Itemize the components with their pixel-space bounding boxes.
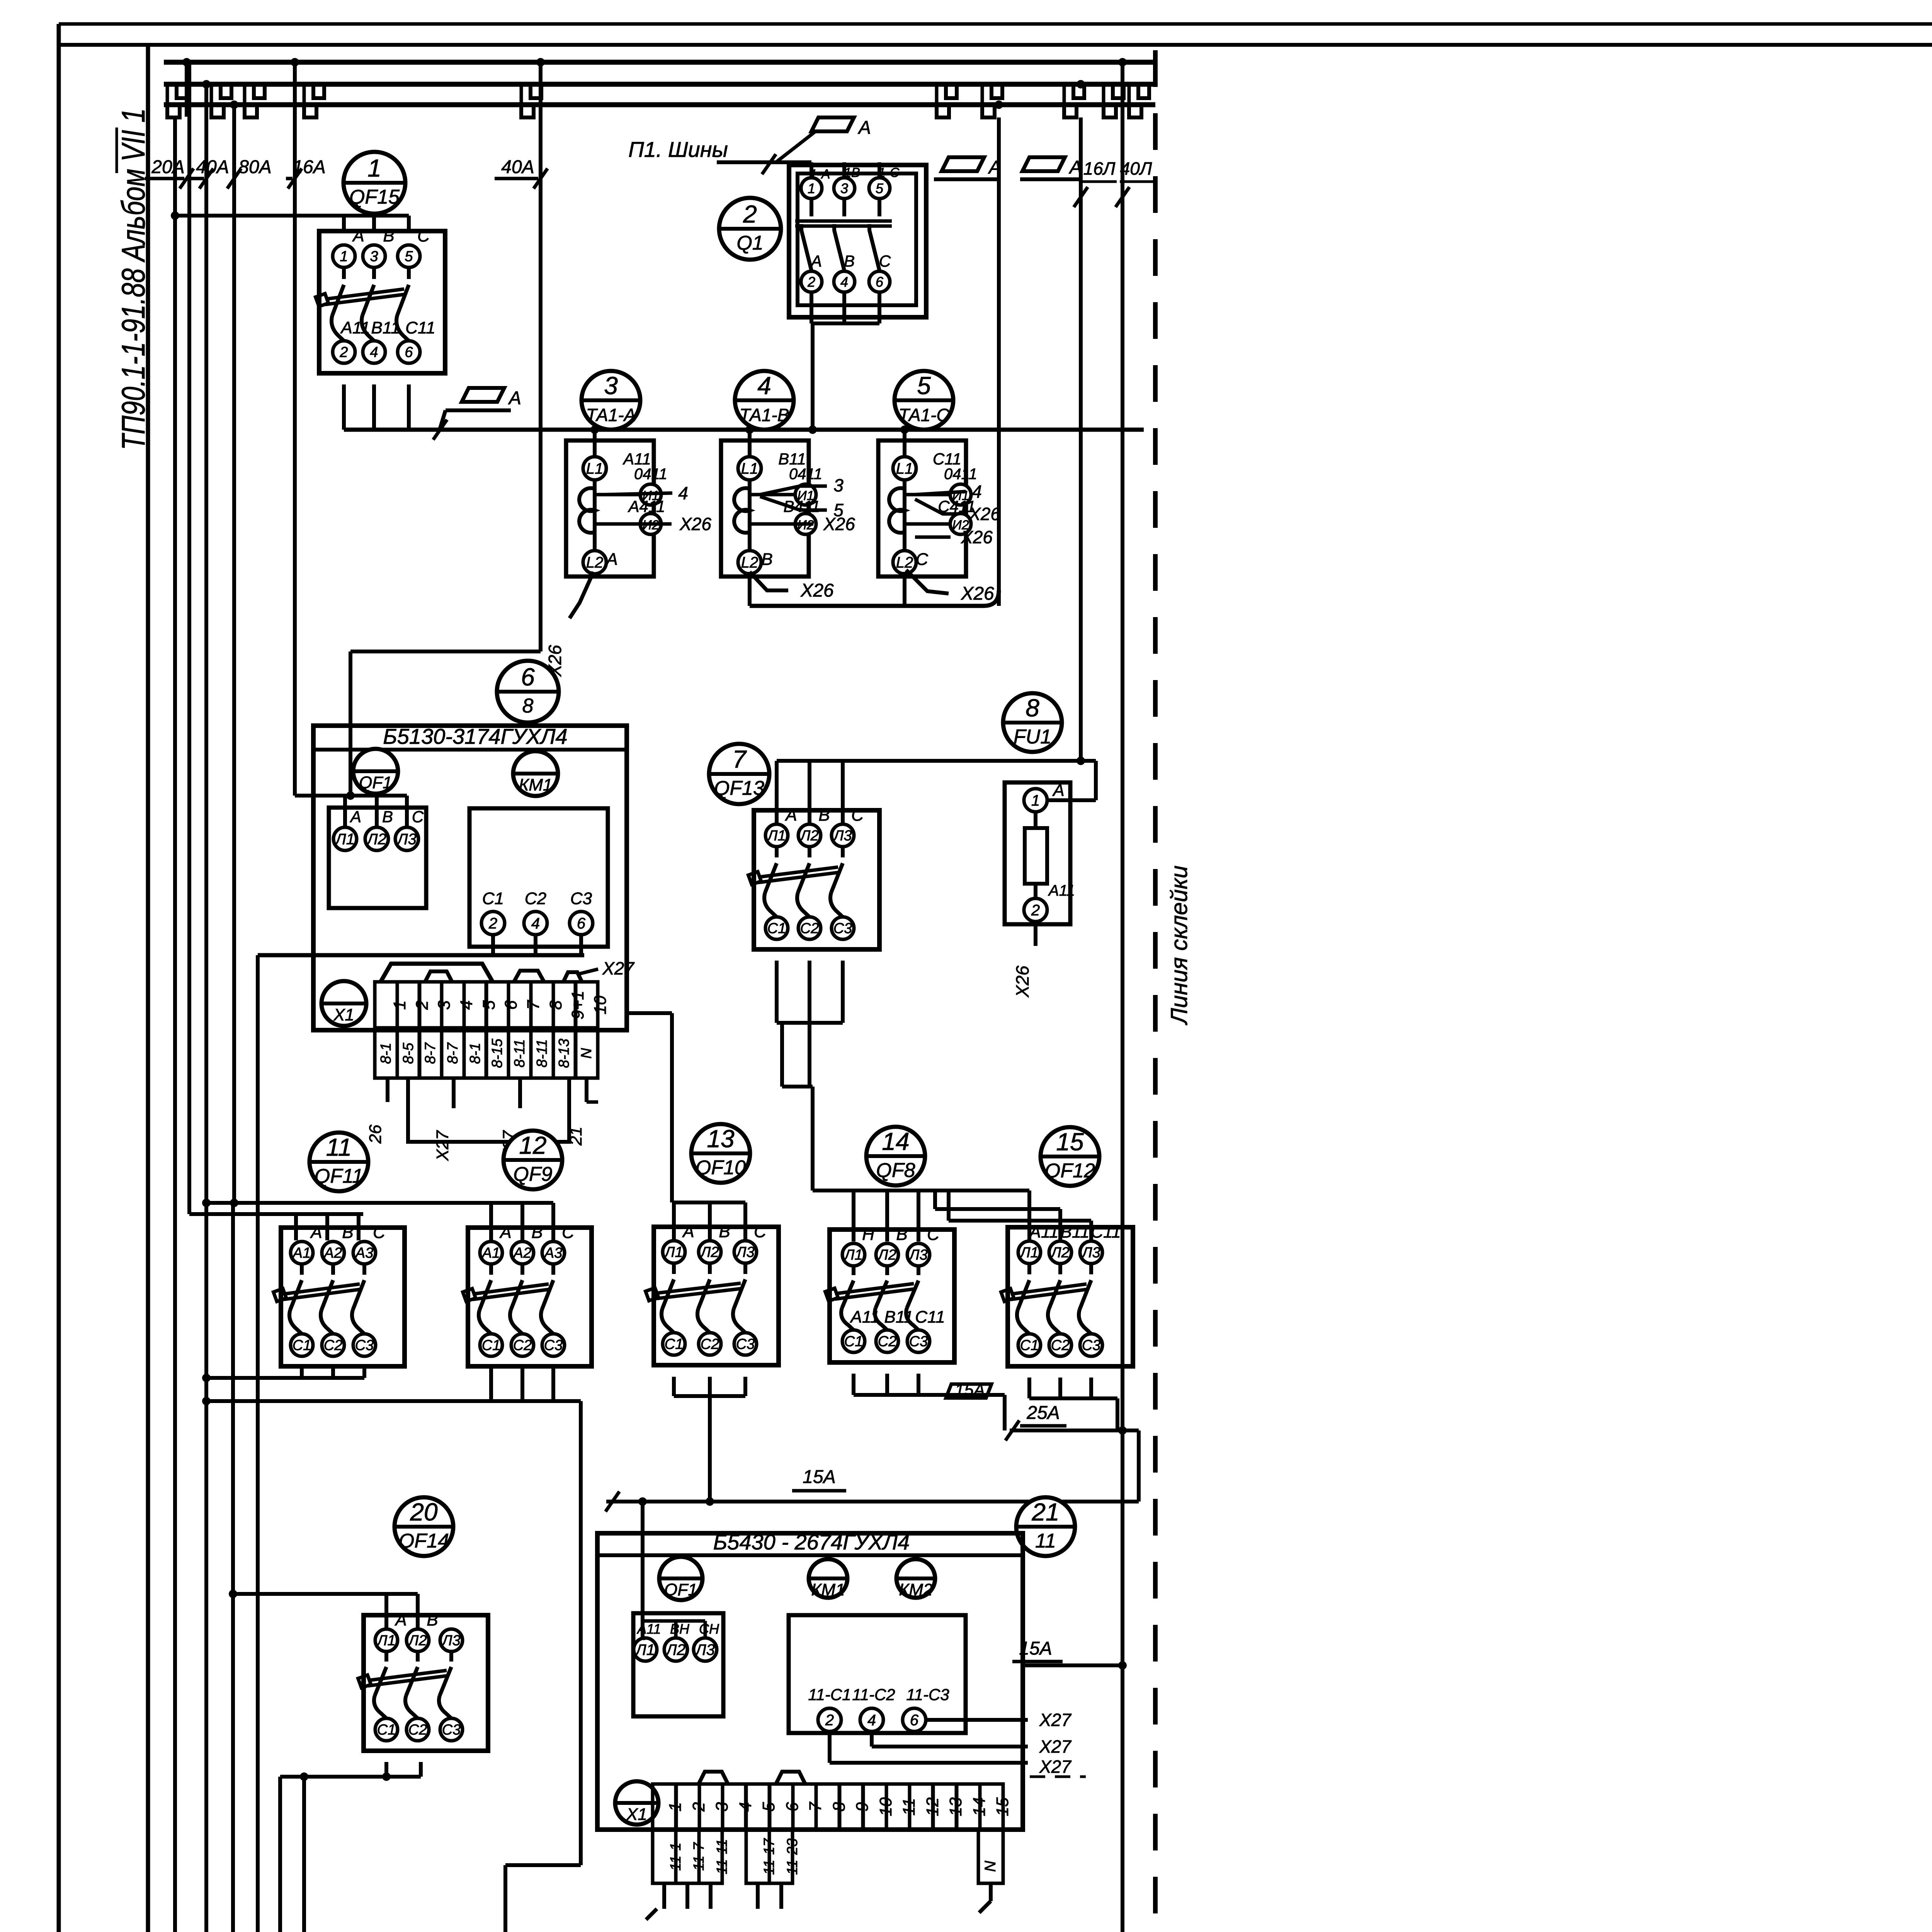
svg-text:А411: А411 bbox=[628, 497, 665, 515]
QF9 output rail bbox=[206, 1399, 581, 1403]
svg-text:С11: С11 bbox=[1091, 1223, 1121, 1242]
svg-text:С3: С3 bbox=[736, 1336, 755, 1352]
svg-text:5: 5 bbox=[917, 372, 931, 400]
bus junction bbox=[995, 100, 1003, 109]
svg-text:С1: С1 bbox=[665, 1336, 684, 1352]
TA1-А terminal L2 bbox=[583, 551, 606, 574]
svg-text:Л2: Л2 bbox=[407, 1633, 427, 1649]
svg-text:8-11: 8-11 bbox=[534, 1039, 550, 1067]
clamp drop wire bbox=[166, 84, 169, 105]
svg-text:Л2: Л2 bbox=[877, 1247, 896, 1263]
bus flag A right 1 bbox=[942, 157, 1001, 178]
15A flag bbox=[946, 1381, 992, 1400]
svg-text:2: 2 bbox=[807, 274, 815, 290]
svg-text:С3: С3 bbox=[909, 1333, 928, 1350]
cable stub X28 bbox=[779, 1883, 783, 1909]
TA1-B sec wire X26 bbox=[760, 522, 813, 526]
svg-text:ТА1-А: ТА1-А bbox=[586, 405, 636, 425]
svg-text:1В: 1В bbox=[844, 165, 860, 180]
svg-text:1: 1 bbox=[808, 180, 815, 196]
KM1 output wire bbox=[579, 935, 583, 955]
svg-text:Х26: Х26 bbox=[1012, 966, 1032, 998]
svg-text:Л2: Л2 bbox=[665, 1641, 685, 1658]
wire down to 15A line bbox=[1137, 1430, 1141, 1502]
designator circle 6/8 bbox=[497, 661, 559, 723]
feeder wire X26 return bbox=[997, 117, 1001, 606]
svg-text:КМ2: КМ2 bbox=[899, 1580, 932, 1599]
QF10 output link bbox=[674, 1394, 745, 1398]
feeder tick bbox=[180, 168, 194, 189]
svg-text:С3: С3 bbox=[833, 920, 852, 937]
clamp 16A upper bbox=[313, 85, 324, 98]
TA1-C sec wire X26 lower bbox=[915, 536, 951, 539]
TA1-B L2 down wire bbox=[748, 572, 752, 606]
KM2 circle in B5430 bbox=[896, 1559, 935, 1599]
svg-text:4: 4 bbox=[370, 344, 378, 361]
feeder 20A top bbox=[185, 62, 189, 117]
svg-text:4: 4 bbox=[678, 483, 688, 503]
TA1-С primary wire bbox=[903, 429, 906, 560]
sheet border left bbox=[57, 24, 61, 1932]
Q1 down wire to TA line bbox=[811, 323, 815, 430]
svg-text:С2: С2 bbox=[878, 1333, 897, 1350]
svg-text:В: В bbox=[761, 550, 772, 569]
TA1-B input drop bbox=[748, 430, 752, 440]
TA1-С terminal I1 bbox=[950, 484, 971, 505]
svg-text:В: В bbox=[531, 1223, 543, 1242]
svg-text:11: 11 bbox=[1035, 1530, 1056, 1552]
bus P1 phase A bbox=[164, 60, 1156, 65]
designator circle 15/QF12 bbox=[1041, 1127, 1099, 1186]
svg-text:Х26: Х26 bbox=[961, 527, 993, 547]
svg-text:А11: А11 bbox=[1048, 882, 1075, 899]
svg-text:L1: L1 bbox=[741, 460, 759, 477]
svg-text:А: А bbox=[1068, 157, 1082, 178]
svg-text:А11: А11 bbox=[622, 450, 651, 468]
svg-text:А2: А2 bbox=[513, 1245, 531, 1261]
big U link under X1 bbox=[408, 1078, 569, 1142]
svg-text:Л1: Л1 bbox=[634, 1641, 655, 1658]
junction bbox=[706, 1497, 714, 1506]
svg-text:С1: С1 bbox=[844, 1333, 863, 1350]
svg-text:21: 21 bbox=[1031, 1498, 1059, 1526]
TA1-B sec wire 5 bbox=[760, 497, 827, 510]
P1 arrow tick bbox=[762, 154, 776, 174]
svg-text:Б5130-3174ГУХЛ4: Б5130-3174ГУХЛ4 bbox=[383, 724, 567, 748]
designator circle 13/QF10 bbox=[691, 1124, 750, 1183]
svg-text:2: 2 bbox=[825, 1712, 834, 1729]
svg-text:11-11: 11-11 bbox=[714, 1839, 730, 1874]
svg-text:ВН: ВН bbox=[670, 1621, 690, 1637]
svg-text:Линия склейки: Линия склейки bbox=[1166, 866, 1192, 1026]
QF15 output wire bbox=[342, 384, 346, 430]
current transformer TA1-С box bbox=[878, 440, 966, 577]
TA1-C L2 tail bbox=[906, 570, 949, 594]
bus P1 phase B bbox=[164, 82, 1156, 87]
svg-text:6: 6 bbox=[876, 274, 884, 290]
svg-text:А: А bbox=[349, 808, 361, 826]
bus flag A lower-left bbox=[462, 388, 521, 408]
Q1 feed line bbox=[742, 160, 811, 164]
svg-text:4: 4 bbox=[457, 1000, 476, 1010]
drop cells under 5-6 bbox=[746, 1830, 801, 1883]
QF9 feed drop bbox=[551, 1203, 555, 1240]
fuse wire top bbox=[1034, 812, 1037, 828]
svg-text:В: В bbox=[719, 1222, 730, 1241]
clamp right 3 bbox=[1064, 104, 1077, 117]
QF9 output wire bbox=[520, 1366, 524, 1401]
X1 cell4 wire bbox=[452, 1078, 456, 1108]
svg-text:КМ1: КМ1 bbox=[519, 776, 552, 794]
stub 28 bend bbox=[646, 1909, 657, 1920]
QF8 output wire bbox=[852, 1374, 855, 1395]
QF1 terminal Л1 bbox=[333, 827, 357, 850]
svg-text:5: 5 bbox=[480, 1000, 498, 1010]
clamp right 2 upper bbox=[992, 85, 1002, 98]
15A underline bbox=[792, 1489, 846, 1493]
svg-text:15: 15 bbox=[993, 1797, 1012, 1816]
svg-text:3: 3 bbox=[833, 475, 844, 495]
svg-text:40А: 40А bbox=[196, 157, 229, 177]
svg-text:QF13: QF13 bbox=[714, 777, 764, 799]
designator circle 7/QF13 bbox=[709, 744, 769, 804]
svg-text:7: 7 bbox=[524, 1000, 543, 1010]
svg-text:1: 1 bbox=[340, 248, 348, 265]
svg-text:А: А bbox=[508, 388, 521, 408]
svg-text:С1: С1 bbox=[482, 889, 504, 908]
feeder tick bbox=[199, 168, 213, 189]
FU1 riser bbox=[1094, 761, 1098, 800]
15A wire to 40L feeder bbox=[1023, 1663, 1122, 1667]
clamp 40A mid bbox=[521, 104, 534, 117]
svg-text:В11: В11 bbox=[884, 1308, 913, 1327]
svg-text:А3: А3 bbox=[355, 1245, 373, 1261]
QF10 wire down to 15A line bbox=[708, 1396, 712, 1502]
svg-text:А2: А2 bbox=[323, 1245, 342, 1261]
clamp drop wire bbox=[1128, 84, 1131, 105]
junction bbox=[1118, 1661, 1127, 1670]
svg-text:Л3: Л3 bbox=[832, 828, 852, 844]
svg-text:11-С3: 11-С3 bbox=[906, 1685, 949, 1704]
clamp drop wire bbox=[1102, 84, 1105, 105]
svg-text:Л2: Л2 bbox=[699, 1244, 719, 1260]
svg-text:26: 26 bbox=[366, 1124, 385, 1144]
svg-text:С3: С3 bbox=[544, 1337, 563, 1354]
junction bbox=[230, 1199, 238, 1207]
clamp 16A bbox=[304, 104, 316, 117]
feeder 40A wire bbox=[204, 84, 208, 1932]
junction bbox=[300, 1772, 308, 1781]
QF12 tap 3 bbox=[947, 1190, 951, 1221]
flag underline wire 1 bbox=[934, 177, 999, 181]
QF9 output wire bbox=[489, 1366, 493, 1401]
QF15 feed line bbox=[175, 214, 409, 218]
QF10 feed drop bbox=[708, 1202, 712, 1242]
svg-text:Х27: Х27 bbox=[1039, 1736, 1071, 1757]
svg-text:Л3: Л3 bbox=[441, 1633, 460, 1649]
TA1-В terminal I2 bbox=[795, 514, 816, 534]
bus junction bbox=[202, 80, 211, 88]
glue line (liniya skleyki) bbox=[1153, 50, 1158, 1932]
svg-text:С: С bbox=[851, 806, 864, 825]
junction feed 16L bbox=[1077, 757, 1085, 765]
clamp drop wire bbox=[243, 84, 247, 105]
TA1-А winding bbox=[579, 488, 595, 532]
svg-text:QF1: QF1 bbox=[359, 773, 392, 792]
Q1 output wire bbox=[842, 292, 846, 323]
svg-text:Л1: Л1 bbox=[663, 1244, 683, 1260]
40A step wire bbox=[350, 650, 541, 653]
feeder from KM1 rail down bbox=[256, 955, 260, 1932]
underline of VII bbox=[116, 128, 118, 173]
QF1 drop wire bbox=[405, 796, 409, 827]
wire down to QF8 feed bbox=[811, 1087, 815, 1190]
Q1 feed drop bbox=[810, 162, 813, 178]
KM1 terminal 4 bbox=[524, 912, 547, 935]
wire 2 to X27 bbox=[830, 1761, 1028, 1765]
TA1-А I1 link bbox=[595, 493, 640, 497]
designator circle 2/Q1 bbox=[719, 198, 781, 260]
junction TA1-C bbox=[900, 425, 909, 434]
svg-text:4: 4 bbox=[867, 1712, 876, 1729]
clamp drop wire bbox=[303, 84, 306, 105]
QF15 feed drop bbox=[342, 216, 346, 231]
cell10 tick bbox=[587, 1100, 598, 1104]
drop cells under 1-3 bbox=[653, 1830, 730, 1883]
svg-text:Q1: Q1 bbox=[736, 232, 763, 254]
label underline bbox=[495, 177, 538, 180]
25A underline bbox=[1020, 1424, 1066, 1428]
svg-text:С: С bbox=[879, 252, 891, 270]
TA1-В I2 link bbox=[750, 522, 795, 526]
bus junction bbox=[291, 58, 299, 66]
svg-text:А: А bbox=[810, 252, 822, 270]
svg-text:С1: С1 bbox=[767, 920, 786, 937]
designator circle 5/TA1-C bbox=[895, 371, 953, 430]
QF10 output wire bbox=[672, 1377, 676, 1396]
FU1 terminal 1 bbox=[1024, 789, 1047, 812]
svg-text:16Л: 16Л bbox=[1083, 158, 1116, 179]
junction TA1-A bbox=[590, 425, 599, 434]
QF15 feed drop bbox=[372, 216, 376, 231]
clamp 40A mid upper bbox=[531, 85, 541, 98]
TA1-С terminal I2 bbox=[950, 514, 971, 534]
clamp drop wire bbox=[1063, 84, 1066, 105]
svg-text:6: 6 bbox=[910, 1712, 919, 1729]
tick 40Л bbox=[1116, 187, 1129, 207]
svg-text:QF8: QF8 bbox=[876, 1159, 915, 1182]
circuit breaker QF12 bbox=[1001, 1223, 1133, 1366]
current transformer TA1-А box bbox=[566, 440, 654, 577]
svg-text:КМ1: КМ1 bbox=[811, 1580, 845, 1599]
QF13 output wire 2 bbox=[808, 961, 811, 1087]
label underline bbox=[189, 177, 204, 180]
circuit breaker QF11 bbox=[274, 1223, 405, 1366]
cable stub bbox=[662, 1883, 666, 1909]
fuse element bbox=[1025, 828, 1047, 884]
svg-text:20А: 20А bbox=[151, 157, 184, 177]
svg-text:9+1: 9+1 bbox=[568, 991, 587, 1020]
terminal block X1 (B5430) bbox=[615, 1781, 658, 1825]
svg-text:Л3: Л3 bbox=[694, 1641, 715, 1658]
QF13 output wire 1 bbox=[775, 961, 779, 1023]
svg-text:40Л: 40Л bbox=[1120, 158, 1152, 179]
QF1 apparatus box bbox=[329, 808, 426, 908]
drop 2 bbox=[674, 1621, 678, 1638]
junction on 15A line bbox=[638, 1497, 647, 1506]
svg-text:4: 4 bbox=[757, 372, 771, 400]
QF12 drop 1 bbox=[1027, 1190, 1031, 1241]
QF12 output wire bbox=[1089, 1378, 1093, 1398]
flag leader to TA line bbox=[440, 410, 446, 428]
designator circle 1/QF15 bbox=[344, 152, 405, 214]
TA1-C L2 down wire bbox=[903, 572, 906, 606]
svg-text:Х27: Х27 bbox=[602, 958, 634, 978]
circuit breaker QF9 bbox=[463, 1223, 592, 1366]
QF15 feed drop bbox=[407, 216, 411, 231]
svg-text:2: 2 bbox=[413, 1000, 432, 1010]
svg-text:15А: 15А bbox=[1019, 1638, 1052, 1659]
junction bbox=[382, 1772, 391, 1781]
cable stub 31 bbox=[756, 1883, 760, 1909]
svg-text:А: А bbox=[784, 806, 797, 825]
circuit breaker QF14 bbox=[358, 1611, 488, 1751]
TA1-В terminal L1 bbox=[738, 457, 761, 480]
B5130 feed line bbox=[295, 794, 407, 798]
svg-text:С11: С11 bbox=[405, 318, 435, 337]
clamp 80A bbox=[245, 104, 257, 117]
svg-text:С2: С2 bbox=[324, 1337, 343, 1354]
riser to B5430 area bbox=[579, 1401, 583, 1865]
B5430 QF1 terminal Л1 bbox=[634, 1638, 657, 1661]
svg-text:0411: 0411 bbox=[944, 466, 977, 483]
svg-text:Х26: Х26 bbox=[679, 514, 711, 534]
bus flag A right 2 bbox=[1022, 157, 1082, 178]
svg-text:11-С1: 11-С1 bbox=[808, 1685, 851, 1704]
svg-text:L1: L1 bbox=[896, 460, 913, 477]
X1 terminal strip row 1 bbox=[375, 982, 610, 1028]
svg-text:А: А bbox=[682, 1222, 694, 1241]
QF14 feed drop 2 bbox=[416, 1594, 420, 1629]
circuit breaker QF10 bbox=[646, 1222, 779, 1365]
clamp drop wire bbox=[520, 84, 523, 105]
svg-text:13: 13 bbox=[707, 1125, 735, 1153]
QF12 feed line 3 bbox=[949, 1219, 1091, 1223]
QF15 output wire bbox=[407, 384, 411, 430]
svg-text:Л1: Л1 bbox=[1019, 1245, 1038, 1261]
svg-text:А11: А11 bbox=[340, 318, 370, 337]
QF10 feed line bbox=[672, 1201, 745, 1204]
TA1-A sec wire 4 bbox=[605, 493, 672, 495]
svg-text:25А: 25А bbox=[1026, 1403, 1060, 1423]
TA1-C input drop bbox=[903, 430, 906, 440]
TA1-А primary wire bbox=[593, 429, 597, 560]
terminal block X1 circle bbox=[321, 981, 366, 1026]
svg-text:В: В bbox=[896, 1225, 907, 1244]
clamp right 5 bbox=[1129, 104, 1141, 117]
QF1 circle in B5130 bbox=[353, 749, 398, 794]
wire down to bottom bus bbox=[278, 1777, 282, 1932]
svg-text:С: С bbox=[373, 1223, 386, 1242]
X1 strip B5430 bbox=[653, 1784, 1012, 1830]
svg-text:L2: L2 bbox=[586, 554, 604, 571]
drop cell under 15 bbox=[978, 1830, 1003, 1883]
B5430 KM apparatus box bbox=[789, 1615, 966, 1733]
svg-text:С1: С1 bbox=[1020, 1337, 1039, 1354]
sheet border top outer bbox=[59, 22, 1932, 26]
svg-text:L2: L2 bbox=[741, 554, 759, 571]
drop 3 bbox=[704, 1621, 707, 1638]
QF1 drop wire bbox=[343, 796, 347, 827]
svg-text:21: 21 bbox=[566, 1127, 585, 1146]
QF14 feed drop 1 bbox=[384, 1594, 388, 1629]
QF11 output wire bbox=[331, 1366, 335, 1378]
junction rail bbox=[202, 1374, 211, 1382]
TA1-A sec wire X26 bbox=[605, 522, 672, 526]
svg-text:QF12: QF12 bbox=[1045, 1160, 1095, 1182]
QF11 output wire bbox=[362, 1366, 366, 1378]
bus junction bbox=[230, 100, 238, 109]
QF10 feed drop bbox=[672, 1202, 676, 1242]
svg-text:Л3: Л3 bbox=[396, 831, 417, 848]
25A arrow tick bbox=[1005, 1420, 1019, 1440]
svg-text:Л2: Л2 bbox=[799, 828, 818, 844]
svg-text:8-15: 8-15 bbox=[489, 1038, 505, 1068]
TA1-С terminal L1 bbox=[893, 457, 916, 480]
Q1 output wire bbox=[878, 292, 881, 323]
svg-text:L2: L2 bbox=[896, 554, 913, 571]
svg-text:3: 3 bbox=[370, 248, 378, 265]
connector cover trapezoids bbox=[381, 964, 493, 982]
svg-text:А1: А1 bbox=[481, 1245, 500, 1261]
svg-text:Б5430 - 2674ГУХЛ4: Б5430 - 2674ГУХЛ4 bbox=[713, 1530, 910, 1554]
Q1 feed drop bbox=[878, 162, 881, 178]
svg-text:4: 4 bbox=[840, 274, 848, 290]
svg-text:Л3: Л3 bbox=[735, 1244, 754, 1260]
label underline 40Л bbox=[1120, 180, 1153, 183]
TA1-A input drop bbox=[593, 429, 597, 440]
KM1 circle in B5130 bbox=[513, 751, 558, 796]
bus junction bbox=[1118, 58, 1127, 66]
TA1-А terminal L1 bbox=[583, 457, 606, 480]
svg-text:QF14: QF14 bbox=[399, 1530, 449, 1552]
QF10 feed drop bbox=[743, 1202, 747, 1242]
TA1-A L2 tail bbox=[570, 572, 594, 618]
clamp right 3 upper bbox=[1073, 85, 1084, 98]
svg-text:L1: L1 bbox=[586, 460, 604, 477]
svg-text:А: А bbox=[394, 1611, 406, 1629]
clamp right 2 bbox=[982, 104, 995, 117]
QF8 to 15A flag wire bbox=[918, 1393, 1005, 1397]
svg-text:С2: С2 bbox=[513, 1337, 532, 1354]
feeder 80A wire bbox=[232, 105, 236, 1203]
svg-text:40А: 40А bbox=[501, 157, 534, 177]
svg-text:Х27: Х27 bbox=[433, 1130, 452, 1161]
clamp 80A upper bbox=[254, 85, 265, 98]
TA1-С terminal L2 bbox=[893, 551, 916, 574]
dashed ref line bbox=[1030, 1776, 1086, 1778]
TA1-А I2 link bbox=[595, 522, 640, 526]
svg-text:QF11: QF11 bbox=[315, 1165, 363, 1187]
clamp right 5 upper bbox=[1138, 85, 1149, 98]
svg-text:Х1: Х1 bbox=[626, 1805, 647, 1824]
bus P1 phase C bbox=[164, 102, 1155, 107]
svg-text:Л1: Л1 bbox=[334, 831, 355, 848]
svg-text:С2: С2 bbox=[800, 920, 819, 937]
QF13 pair wire down bbox=[780, 1023, 784, 1087]
svg-text:N: N bbox=[578, 1048, 595, 1059]
svg-text:2: 2 bbox=[488, 915, 497, 932]
